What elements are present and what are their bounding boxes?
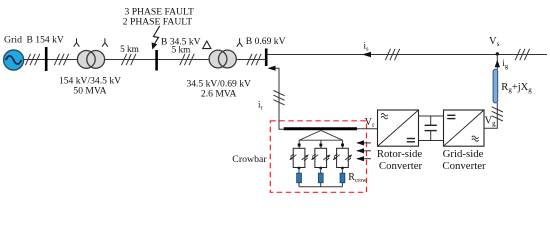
current arrow i_s: [362, 52, 371, 58]
crowbar dashed box: [270, 121, 366, 193]
crowbar branch 1: [290, 148, 309, 186]
svg-text:B 0.69 kV: B 0.69 kV: [246, 36, 286, 47]
T2 wye symbol: [237, 38, 243, 47]
wire main line right section: [266, 54, 547, 56]
transmission ticks group 3: [122, 54, 136, 65]
phase arrows to rotor converter: [356, 140, 371, 161]
crowbar branch 2: [311, 148, 330, 186]
bus B 154 kV: [45, 47, 48, 71]
svg-text:5 km: 5 km: [172, 45, 192, 55]
svg-text:Rg+jXg: Rg+jXg: [501, 82, 532, 94]
svg-text:Crowbar: Crowbar: [232, 154, 267, 165]
dc link wires: [419, 115, 444, 117]
transmission ticks group 4: [180, 54, 194, 65]
ticks on Vg wire: [492, 107, 503, 121]
transmission ticks group 2: [54, 54, 68, 65]
grid source: [4, 50, 24, 70]
svg-text:Converter: Converter: [442, 160, 486, 172]
svg-text:Rotor-side: Rotor-side: [377, 148, 423, 160]
fault lightning arrow: [152, 26, 160, 50]
impedance Rg+jXg: [493, 69, 498, 103]
T2 delta symbol: [203, 41, 211, 49]
svg-text:2.6 MVA: 2.6 MVA: [201, 89, 237, 100]
converter RSC box: [378, 110, 419, 146]
ticks on i_r wire: [273, 91, 284, 105]
wire bar to rotor-side converter: [357, 128, 378, 130]
svg-text:Vr: Vr: [365, 117, 376, 129]
rotor bar V_r: [284, 127, 357, 130]
svg-text:Grid-side: Grid-side: [443, 148, 484, 160]
transmission ticks group 7: [515, 49, 529, 60]
wire main line left section: [23, 59, 266, 61]
svg-text:Vs: Vs: [489, 36, 500, 48]
rotor winding triangle: [298, 131, 344, 149]
converter GSC box: [444, 110, 485, 146]
svg-text:Rcrow: Rcrow: [348, 172, 367, 184]
wire impedance down to grid-side converter: [484, 103, 497, 128]
T1 wye symbol right: [102, 38, 108, 47]
svg-text:is: is: [364, 40, 370, 52]
svg-text:B 154 kV: B 154 kV: [27, 35, 64, 46]
svg-text:ir: ir: [258, 100, 264, 112]
transmission ticks group 1: [25, 54, 39, 65]
wire stator-to-impedance with current arrow i_g: [496, 54, 498, 70]
svg-text:50 MVA: 50 MVA: [73, 86, 106, 97]
rotor branch wire from bus with arrow: [268, 66, 285, 130]
transmission ticks group 5: [247, 54, 261, 65]
transformer T2: [209, 50, 236, 68]
dc link capacitor: [425, 116, 437, 141]
T1 wye symbol left: [74, 38, 80, 47]
svg-text:2 PHASE FAULT: 2 PHASE FAULT: [123, 17, 192, 28]
crowbar branch 3: [333, 148, 352, 186]
transmission ticks group 6: [385, 49, 399, 60]
svg-text:Grid: Grid: [4, 35, 22, 46]
svg-text:Converter: Converter: [379, 160, 423, 172]
bus B 34.5 kV: [155, 50, 158, 71]
transformer T1: [77, 51, 104, 69]
crowbar bottom wire: [299, 186, 342, 188]
svg-text:ig: ig: [502, 58, 509, 70]
svg-text:5 km: 5 km: [120, 45, 140, 55]
bus B 0.69 kV: [265, 49, 268, 67]
node V_s: [496, 52, 499, 55]
